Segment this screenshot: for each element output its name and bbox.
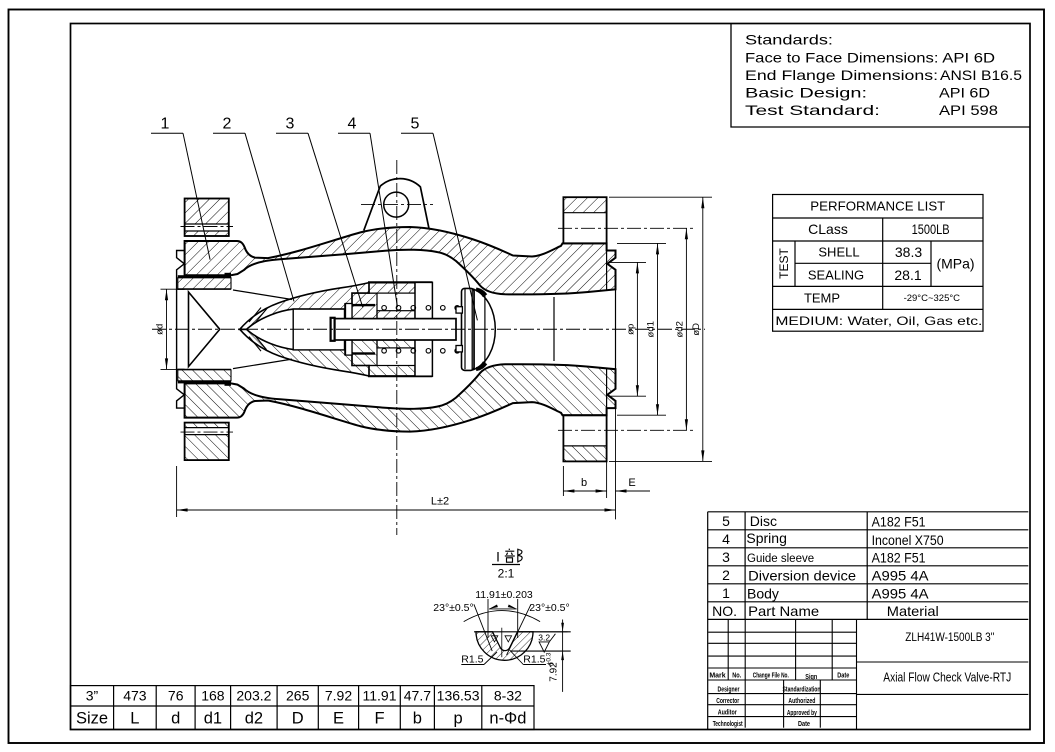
diversion device nose cone — [189, 292, 220, 367]
svg-text:E: E — [628, 477, 635, 489]
svg-text:A182 F51: A182 F51 — [872, 549, 926, 565]
dimension phi-p — [609, 261, 646, 263]
svg-text:Part Name: Part Name — [748, 603, 819, 619]
diversion device 2 shell (hatched) — [240, 283, 369, 330]
svg-text:I: I — [496, 550, 500, 565]
svg-text:-29°C~325°C: -29°C~325°C — [904, 293, 961, 304]
svg-text:b: b — [413, 710, 422, 728]
svg-text:4: 4 — [722, 531, 730, 547]
dimension b (flange thickness) — [562, 466, 564, 496]
svg-text:Sign: Sign — [805, 674, 817, 681]
kanji BU (detail) drawn as strokes — [505, 549, 522, 563]
svg-text:Date: Date — [798, 721, 810, 728]
svg-text:5: 5 — [722, 513, 730, 529]
lifting lug — [364, 179, 429, 231]
svg-text:Corrector: Corrector — [716, 698, 739, 705]
svg-text:ød1: ød1 — [646, 321, 657, 337]
body 1 section (hatched) — [185, 227, 616, 294]
detail view I (RTJ groove) 2:1 — [433, 549, 570, 692]
svg-text:7.92: 7.92 — [325, 688, 352, 704]
svg-text:No.: No. — [732, 672, 741, 679]
svg-text:SHELL: SHELL — [818, 245, 859, 260]
parts list table — [708, 512, 1029, 730]
size table — [71, 686, 535, 730]
svg-text:Auditor: Auditor — [718, 710, 737, 717]
svg-text:Size: Size — [76, 710, 108, 728]
svg-text:d1: d1 — [204, 710, 222, 728]
svg-text:Basic Design:: Basic Design: — [745, 85, 867, 101]
svg-text:2: 2 — [722, 567, 730, 583]
svg-text:End Flange Dimensions:: End Flange Dimensions: — [745, 67, 938, 83]
svg-text:ød2: ød2 — [674, 321, 685, 337]
svg-text:Date: Date — [837, 672, 849, 679]
inlet bore lines — [178, 288, 231, 290]
svg-text:D: D — [292, 710, 304, 728]
svg-text:Approved by: Approved by — [787, 710, 817, 717]
standards text block — [731, 24, 1030, 128]
main horizontal centerline — [152, 328, 705, 330]
dimension phi-d2 (bolt circle) — [685, 228, 687, 430]
svg-text:p: p — [454, 710, 463, 728]
svg-text:Designer: Designer — [718, 686, 740, 693]
svg-text:(MPa): (MPa) — [936, 256, 974, 272]
svg-text:L±2: L±2 — [431, 496, 449, 508]
left flange bolt-ring cap — [185, 199, 229, 237]
svg-text:28.1: 28.1 — [894, 267, 921, 283]
svg-text:3”: 3” — [86, 688, 99, 704]
svg-text:3.2: 3.2 — [538, 633, 550, 643]
svg-text:5: 5 — [411, 115, 420, 132]
svg-text:A995 4A: A995 4A — [872, 567, 930, 583]
svg-text:PERFORMANCE LIST: PERFORMANCE LIST — [810, 199, 945, 214]
svg-text:4: 4 — [348, 115, 357, 132]
svg-text:Face to Face Dimensions: API 6: Face to Face Dimensions: API 6D — [745, 49, 995, 65]
svg-text:Material: Material — [887, 603, 939, 619]
svg-text:Axial Flow Check Valve-RTJ: Axial Flow Check Valve-RTJ — [883, 670, 1011, 685]
svg-text:2:1: 2:1 — [498, 567, 515, 581]
svg-text:R1.5: R1.5 — [461, 653, 483, 665]
svg-text:Inconel X750: Inconel X750 — [872, 532, 944, 548]
stem guide bore — [293, 309, 344, 350]
svg-text:168: 168 — [201, 688, 225, 704]
title block grid — [708, 619, 1028, 729]
svg-text:TEMP: TEMP — [804, 290, 840, 305]
spring 4 coil circles — [382, 306, 387, 311]
svg-text:11.91: 11.91 — [363, 688, 397, 704]
svg-text:TEST: TEST — [777, 247, 791, 278]
seat ring section (hatched) — [178, 278, 231, 289]
svg-text:A182 F51: A182 F51 — [872, 513, 926, 529]
dimension E (raised face) — [615, 400, 617, 519]
disc 5 — [474, 289, 495, 369]
vertical centerline through spring/lug — [396, 160, 398, 535]
left flange raised face + ring groove — [177, 251, 185, 290]
valve stem shaft — [330, 319, 456, 340]
svg-text:0: 0 — [549, 662, 556, 666]
svg-text:2: 2 — [223, 115, 232, 132]
dimension phi-D (flange OD) — [609, 196, 712, 198]
svg-text:1: 1 — [722, 585, 730, 601]
seat retainer ring (black) — [225, 273, 232, 278]
svg-text:F: F — [374, 710, 384, 728]
svg-text:R1.5: R1.5 — [523, 653, 545, 665]
svg-text:47.7: 47.7 — [404, 688, 431, 704]
svg-text:Standards:: Standards: — [745, 32, 833, 48]
svg-text:Mark: Mark — [709, 672, 725, 679]
svg-text:Test Standard:: Test Standard: — [745, 102, 880, 118]
svg-text:Spring: Spring — [746, 530, 786, 546]
svg-text:ød: ød — [155, 324, 166, 335]
seat bore edge line — [553, 297, 555, 361]
svg-text:8-32: 8-32 — [494, 688, 522, 704]
svg-text:23°±0.5°: 23°±0.5° — [529, 602, 569, 614]
dimension phi-d1 — [617, 242, 666, 244]
svg-text:E: E — [333, 710, 344, 728]
svg-text:Diversion device: Diversion device — [748, 567, 856, 583]
svg-text:136.53: 136.53 — [437, 688, 480, 704]
svg-text:Standardization: Standardization — [783, 686, 821, 693]
svg-text:265: 265 — [286, 688, 310, 704]
svg-text:øD: øD — [691, 323, 702, 336]
svg-text:38.3: 38.3 — [895, 244, 922, 260]
svg-text:473: 473 — [123, 688, 147, 704]
seat ring weld line — [178, 275, 231, 278]
svg-text:API 6D: API 6D — [939, 85, 990, 101]
svg-text:NO.: NO. — [712, 603, 737, 619]
svg-text:n-Φd: n-Φd — [489, 710, 526, 728]
dimension phi-d (left bore) — [161, 288, 184, 290]
svg-text:11.91±0.203: 11.91±0.203 — [475, 589, 533, 601]
performance list table — [773, 195, 983, 332]
right flange bolt-ring cap — [563, 197, 606, 243]
weld marks — [249, 308, 261, 323]
svg-text:3: 3 — [722, 549, 730, 565]
svg-text:Change File No.: Change File No. — [753, 672, 789, 679]
svg-text:Authorized: Authorized — [788, 698, 815, 705]
svg-text:3: 3 — [286, 115, 295, 132]
svg-text:203.2: 203.2 — [236, 688, 271, 704]
svg-text:Guide sleeve: Guide sleeve — [747, 553, 814, 565]
svg-text:Body: Body — [747, 585, 779, 601]
disc seal rings (black) — [476, 288, 487, 297]
svg-text:Disc: Disc — [750, 513, 777, 529]
svg-text:d: d — [171, 710, 180, 728]
svg-text:CLass: CLass — [808, 221, 848, 237]
svg-text:b: b — [581, 477, 587, 489]
svg-text:23°±0.5°: 23°±0.5° — [433, 602, 473, 614]
guide sleeve 3 and spring housing — [369, 282, 415, 293]
svg-text:Technologist: Technologist — [713, 721, 743, 728]
svg-text:1500LB: 1500LB — [912, 221, 950, 237]
svg-text:API 598: API 598 — [939, 102, 998, 118]
svg-text:øp: øp — [625, 324, 636, 335]
svg-text:MEDIUM: Water, Oil, Gas et: MEDIUM: Water, Oil, Gas etc. — [775, 314, 982, 328]
svg-text:76: 76 — [168, 688, 184, 704]
svg-text:1: 1 — [161, 115, 170, 132]
svg-text:A995 4A: A995 4A — [872, 585, 930, 601]
svg-text:SEALING: SEALING — [808, 268, 864, 283]
svg-text:d2: d2 — [245, 710, 263, 728]
valve main section view — [177, 197, 695, 461]
dimension L+-2 — [176, 466, 178, 517]
svg-text:ANSI B16.5: ANSI B16.5 — [940, 67, 1022, 83]
svg-text:ZLH41W-1500LB 3": ZLH41W-1500LB 3" — [905, 632, 994, 644]
svg-text:L: L — [130, 710, 139, 728]
